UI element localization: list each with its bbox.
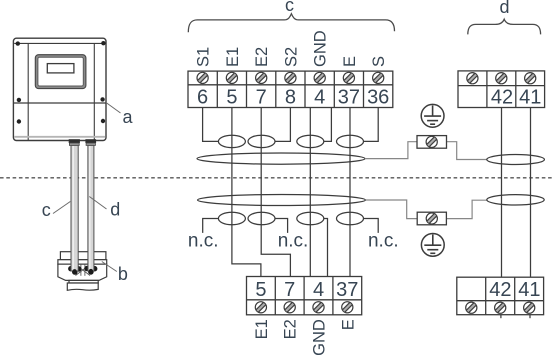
svg-text:41: 41 — [518, 279, 540, 301]
svg-text:d: d — [499, 0, 509, 17]
terminal numbers bottom block d — [489, 279, 540, 301]
terminal block c top: outline — [188, 71, 393, 107]
shield wire ground screw to cable d bottom — [446, 200, 487, 218]
housing corner screws — [16, 41, 106, 124]
svg-text:n.c.: n.c. — [278, 231, 309, 252]
transmitter housing a — [13, 38, 106, 140]
svg-text:36: 36 — [367, 87, 389, 109]
wire 41 — [530, 108, 532, 278]
terminal names top block c (rotated) — [195, 30, 389, 67]
svg-text:7: 7 — [256, 87, 267, 109]
sensor b — [58, 252, 107, 291]
svg-text:5: 5 — [226, 87, 237, 109]
terminal numbers bottom block c — [255, 279, 358, 301]
wire S (36) hook — [364, 108, 379, 142]
cable d shield ellipse bottom — [487, 195, 544, 205]
svg-text:S2: S2 — [282, 47, 300, 67]
cable c shield ellipse top — [197, 153, 365, 164]
twisted pair ring 4 top — [337, 135, 364, 147]
twisted pair ring 4 bottom — [337, 212, 364, 224]
svg-text:n.c.: n.c. — [188, 231, 219, 252]
twisted pair ring 3 top — [297, 135, 324, 147]
svg-text:a: a — [122, 107, 133, 127]
sensor cable end blobs — [68, 266, 97, 275]
wire S2 (8) hook — [275, 108, 290, 142]
svg-text:42: 42 — [491, 87, 513, 109]
wire 42 — [501, 108, 503, 278]
wire E1 (5) — [232, 108, 261, 277]
svg-text:5: 5 — [255, 279, 266, 301]
shield wire ground screw to cable d top — [447, 142, 487, 160]
shield wire bottom to ground screw — [366, 200, 418, 219]
svg-text:n.c.: n.c. — [368, 231, 399, 252]
wire GND drain (4) hook — [324, 108, 332, 142]
cable c (left) — [71, 145, 78, 271]
leader line d — [89, 197, 106, 210]
separation dashed line — [0, 177, 554, 179]
leader line c — [53, 202, 70, 214]
svg-text:GND: GND — [312, 30, 330, 67]
svg-text:E2: E2 — [253, 47, 271, 67]
ground screw box top — [417, 136, 447, 149]
svg-text:S1: S1 — [195, 47, 213, 67]
svg-text:7: 7 — [284, 279, 295, 301]
cable d (right) — [88, 145, 94, 271]
screws top block c — [197, 72, 384, 83]
wire S1 (6) hook — [203, 108, 219, 142]
sensor internal wires — [76, 264, 91, 276]
leader line a — [106, 103, 121, 114]
svg-text:6: 6 — [197, 87, 208, 109]
svg-text:E: E — [341, 56, 359, 67]
twisted pair ring 1 bottom — [218, 212, 245, 224]
wire E (37) — [349, 108, 351, 277]
wire n.c. 2 — [275, 219, 288, 233]
svg-text:37: 37 — [336, 279, 358, 301]
terminal numbers top block d — [491, 87, 542, 109]
protective earth symbol bottom — [421, 234, 444, 257]
twisted pair ring 2 bottom — [248, 212, 275, 224]
display window — [47, 64, 74, 73]
screws bottom block c — [255, 302, 353, 313]
svg-text:c: c — [285, 0, 294, 15]
svg-text:8: 8 — [285, 87, 296, 109]
svg-text:S: S — [370, 56, 388, 67]
cable d shield ellipse top — [487, 155, 545, 165]
twisted pair ring 2 top — [248, 135, 275, 147]
ground screw box bottom — [417, 212, 446, 225]
terminal block d top: outline — [458, 71, 545, 108]
svg-text:GND: GND — [311, 319, 329, 356]
terminal block d bottom: outline — [457, 277, 544, 315]
svg-text:37: 37 — [338, 87, 360, 109]
svg-text:4: 4 — [313, 279, 324, 301]
cable c shield ellipse bottom — [198, 195, 366, 206]
svg-text:42: 42 — [489, 279, 511, 301]
terminal numbers top block c — [197, 87, 389, 109]
wire n.c. 1 — [203, 219, 219, 233]
twisted pair ring 1 top — [218, 135, 245, 147]
cable gland d — [85, 139, 96, 145]
wire E2 (7) — [261, 108, 290, 277]
svg-text:E1: E1 — [224, 47, 242, 67]
screws top block d — [467, 73, 536, 84]
svg-text:E1: E1 — [253, 319, 271, 339]
terminal names bottom block c (rotated) — [253, 319, 357, 356]
svg-text:d: d — [110, 199, 120, 219]
screws bottom block d — [466, 302, 535, 313]
terminal block c bottom: outline — [247, 277, 362, 315]
wire n.c. 3 — [364, 219, 379, 233]
ticks below bottom block d — [500, 315, 502, 319]
brace c — [188, 14, 394, 33]
svg-text:E: E — [339, 319, 357, 330]
svg-text:b: b — [118, 264, 128, 284]
svg-text:41: 41 — [519, 87, 541, 109]
sensor cable clamp dots — [72, 269, 93, 274]
brace d — [468, 19, 541, 34]
twisted pair ring 3 bottom — [297, 212, 324, 224]
shield wire top to ground screw — [365, 142, 417, 159]
svg-text:E2: E2 — [282, 319, 300, 339]
protective earth symbol top — [421, 104, 444, 127]
cable gland c — [69, 139, 80, 145]
svg-text:4: 4 — [314, 87, 325, 109]
display bezel — [36, 56, 84, 88]
wire GND drain bottom — [324, 219, 328, 277]
svg-text:c: c — [42, 200, 51, 220]
leader line b — [102, 262, 117, 272]
wire GND (4) — [309, 108, 311, 277]
